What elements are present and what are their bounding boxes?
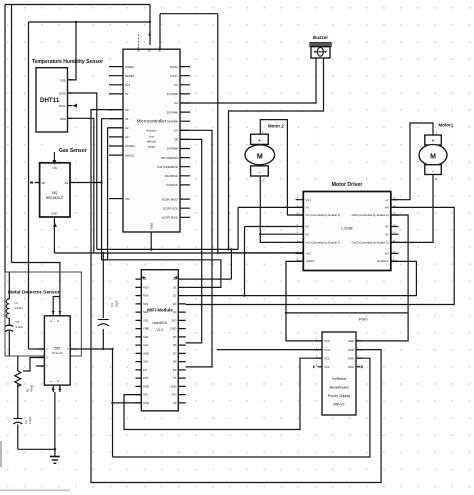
svg-text:47kΩ: 47kΩ xyxy=(30,384,34,392)
wire MCU top pin3 to driver pin7 xyxy=(160,14,303,253)
svg-text:GND: GND xyxy=(143,401,149,405)
wire R1 C2 column xyxy=(17,356,19,449)
wire D4 to buzzer left xyxy=(170,58,316,103)
svg-text:Arduino: Arduino xyxy=(146,129,157,133)
wire driver +V feed xyxy=(238,207,303,249)
wire left rail x5 xyxy=(4,5,6,273)
svg-text:D11 PWM/MOSI: D11 PWM/MOSI xyxy=(158,165,179,169)
svg-text:GND: GND xyxy=(143,351,149,355)
svg-text:D9 PWM: D9 PWM xyxy=(167,147,179,151)
svg-text:VCC: VCC xyxy=(324,339,330,343)
svg-text:YwRobot: YwRobot xyxy=(332,377,347,381)
power supply MB-V2 xyxy=(314,318,368,416)
svg-text:EN: EN xyxy=(143,368,147,372)
wire 555 right pin to x112.5 xyxy=(70,348,112,350)
svg-text:MQ: MQ xyxy=(52,191,58,195)
svg-text:D4: D4 xyxy=(174,101,178,105)
wire MCU A1 to x101.6 xyxy=(102,119,123,260)
svg-text:In1 (Controlled by Enable 1): In1 (Controlled by Enable 1) xyxy=(306,213,341,217)
svg-text:SD3: SD3 xyxy=(143,302,149,306)
svg-text:Out3 (Controlled by Enable 2): Out3 (Controlled by Enable 2) xyxy=(352,241,389,245)
scan artifact marks xyxy=(0,441,2,467)
wire C3 column xyxy=(102,253,104,349)
svg-text:Gas Sensor: Gas Sensor xyxy=(59,148,87,154)
svg-text:SD1: SD1 xyxy=(143,318,149,322)
svg-text:D3: D3 xyxy=(173,302,177,306)
svg-text:GND: GND xyxy=(51,212,57,216)
svg-text:+V: +V xyxy=(306,206,310,210)
svg-text:D10 PWM/SS: D10 PWM/SS xyxy=(161,156,178,160)
sensor DHT11 xyxy=(32,59,103,132)
left pins xyxy=(109,67,123,199)
svg-text:Power Supply: Power Supply xyxy=(328,394,350,398)
svg-text:+Motor: +Motor xyxy=(306,259,315,263)
svg-text:Microcontroller: Microcontroller xyxy=(137,119,167,124)
ground xyxy=(50,449,60,463)
svg-text:MB-V2: MB-V2 xyxy=(334,403,345,407)
svg-text:(Rev3): (Rev3) xyxy=(147,140,156,144)
wire motor2 plus to driver In1 xyxy=(260,120,303,215)
svg-text:SD2: SD2 xyxy=(143,310,149,314)
svg-text:Motor 2: Motor 2 xyxy=(268,124,284,129)
svg-text:GND: GND xyxy=(143,384,149,388)
svg-text:3V3: 3V3 xyxy=(143,360,148,364)
svg-text:D2: D2 xyxy=(173,294,177,298)
wire 5V rail y22 xyxy=(29,21,151,23)
svg-text:SD0: SD0 xyxy=(143,335,149,339)
wire driver pin8L +Motor to PSU VCC1 xyxy=(286,261,322,341)
svg-text:VDD: VDD xyxy=(60,78,66,82)
motor M2 xyxy=(245,124,284,183)
svg-text:WiFi Module: WiFi Module xyxy=(147,308,173,313)
svg-text:10mH: 10mH xyxy=(15,306,23,310)
svg-text:NULL: NULL xyxy=(59,104,67,108)
wire 555 left pin1 xyxy=(29,348,45,350)
svg-text:Timer IC: Timer IC xyxy=(52,351,63,355)
wire wifi row15 to PSU VCC3 xyxy=(124,358,322,429)
svg-text:In4: In4 xyxy=(385,206,389,210)
svg-text:A2: A2 xyxy=(125,126,129,130)
wire MCU A0 to x91 xyxy=(91,110,381,483)
svg-text:NodeMCU: NodeMCU xyxy=(152,321,168,325)
svg-text:RX: RX xyxy=(173,368,177,372)
wire x244.5 xyxy=(244,227,246,296)
svg-text:RST: RST xyxy=(143,376,149,380)
svg-text:-: - xyxy=(432,169,434,175)
wire driver pin3R to PSU GND1 xyxy=(356,215,408,341)
svg-text:VCC: VCC xyxy=(324,348,330,352)
svg-text:TX: TX xyxy=(173,376,177,380)
svg-text:GND: GND xyxy=(348,357,354,361)
wire x112.5 xyxy=(112,349,114,457)
svg-text:3V3: 3V3 xyxy=(172,393,177,397)
wire wifi row16 left xyxy=(113,402,142,404)
wire DHT GND down xyxy=(68,118,94,253)
svg-text:GND: GND xyxy=(171,327,177,331)
wire gas A0 xyxy=(70,182,102,184)
svg-text:Buzzer: Buzzer xyxy=(313,35,329,40)
motor driver L293B xyxy=(296,182,399,271)
svg-text:D5 PWM: D5 PWM xyxy=(167,110,179,114)
svg-text:0V: 0V xyxy=(385,225,389,229)
svg-text:(ICSP) MOSI: (ICSP) MOSI xyxy=(162,216,179,220)
svg-text:In3: In3 xyxy=(385,252,389,256)
svg-text:VIN: VIN xyxy=(143,393,148,397)
svg-text:3V3: 3V3 xyxy=(125,83,130,87)
svg-text:Enable 1: Enable 1 xyxy=(378,259,389,263)
svg-text:D2: D2 xyxy=(174,83,178,87)
wire D8 down to wifi row9 xyxy=(170,139,202,343)
metal detector container xyxy=(5,272,81,356)
svg-text:In2 (Controlled by Enable 1): In2 (Controlled by Enable 1) xyxy=(306,241,341,245)
svg-text:5V: 5V xyxy=(173,401,176,405)
svg-text:C3: C3 xyxy=(110,303,114,307)
wire DHT VDD to 5V rail xyxy=(68,22,77,80)
svg-text:Breadboard: Breadboard xyxy=(330,386,349,390)
wire 555 left pin2 xyxy=(23,358,44,372)
svg-text:VCC: VCC xyxy=(324,357,330,361)
wire mcu top pin feed xyxy=(149,5,151,46)
svg-text:IOREF: IOREF xyxy=(125,65,134,69)
microcontroller U1 Arduino Uno xyxy=(109,32,190,232)
svg-text:D8: D8 xyxy=(173,360,177,364)
svg-text:A0: A0 xyxy=(65,181,69,185)
wire 555 bottom pin down xyxy=(54,392,56,449)
svg-text:A3: A3 xyxy=(125,135,129,139)
svg-text:Motor1: Motor1 xyxy=(439,123,454,128)
svg-text:D1: D1 xyxy=(173,285,177,289)
wire mcu bottom pin xyxy=(150,232,152,249)
right pins xyxy=(180,67,190,218)
svg-text:D0: D0 xyxy=(42,181,46,185)
svg-text:L293B: L293B xyxy=(341,226,353,231)
svg-text:A5/SCL: A5/SCL xyxy=(125,153,135,157)
svg-text:A0: A0 xyxy=(125,108,129,112)
svg-text:5V: 5V xyxy=(148,48,152,52)
svg-text:A0: A0 xyxy=(143,277,147,281)
svg-text:+: + xyxy=(432,139,435,145)
wire PSU VCC2 rail xyxy=(217,349,322,351)
svg-text:GND: GND xyxy=(60,117,66,121)
svg-text:D7: D7 xyxy=(173,351,177,355)
svg-text:3V3: 3V3 xyxy=(137,47,141,52)
svg-text:D1/Tx: D1/Tx xyxy=(171,74,179,78)
wire driver pin1R to motor1 plus xyxy=(391,123,433,200)
wire motor2 minus to driver In2 xyxy=(260,176,303,242)
wire 555 top pin1 feed xyxy=(53,297,60,308)
buzzer xyxy=(310,35,331,58)
svg-text:D7: D7 xyxy=(174,129,178,133)
svg-text:D0: D0 xyxy=(173,277,177,281)
svg-text:BREAKOUT: BREAKOUT xyxy=(46,196,64,200)
wire DHT DATA down xyxy=(68,93,97,249)
svg-text:0V: 0V xyxy=(306,232,310,236)
top pins xyxy=(138,34,140,49)
svg-text:Uno: Uno xyxy=(149,135,155,139)
svg-text:5V: 5V xyxy=(125,92,129,96)
svg-text:GND: GND xyxy=(348,348,354,352)
svg-text:Temperature Humidity Sensor: Temperature Humidity Sensor xyxy=(32,59,103,65)
wire top rail 1 xyxy=(5,4,150,6)
svg-text:Metal Detector Sensor: Metal Detector Sensor xyxy=(8,290,60,296)
svg-text:D8: D8 xyxy=(174,138,178,142)
svg-text:Motor Driver: Motor Driver xyxy=(332,182,363,188)
svg-text:2.2µF: 2.2µF xyxy=(28,416,32,424)
wire buzzer right down xyxy=(229,58,324,249)
svg-text:2.2µF: 2.2µF xyxy=(16,325,24,329)
svg-text:D12/MISO: D12/MISO xyxy=(165,174,179,178)
svg-text:D6 PWM: D6 PWM xyxy=(167,119,179,123)
svg-text:RESET: RESET xyxy=(125,74,135,78)
svg-text:Vs 1: Vs 1 xyxy=(306,198,312,202)
svg-text:M: M xyxy=(430,154,436,161)
capacitor C1 xyxy=(5,320,23,332)
wire left rail x11.5 xyxy=(11,5,13,263)
svg-text:555: 555 xyxy=(54,347,60,351)
svg-text:RSV: RSV xyxy=(143,294,149,298)
svg-text:VIN: VIN xyxy=(125,197,130,201)
timer IC 555 xyxy=(39,307,76,392)
wire 555 top pin2 feed xyxy=(12,263,60,308)
svg-text:D3 PWM: D3 PWM xyxy=(167,92,179,96)
svg-text:L1: L1 xyxy=(15,301,19,305)
inductor L1 xyxy=(6,299,22,318)
svg-text:GND: GND xyxy=(171,384,177,388)
wire 555 left pin3 xyxy=(36,365,44,367)
svg-text:VCC: VCC xyxy=(324,365,330,369)
svg-text:C1: C1 xyxy=(16,320,20,324)
wire mcu bottom gnd y249.4 xyxy=(97,249,238,279)
svg-text:CLK: CLK xyxy=(143,343,148,347)
svg-text:+V2: +V2 xyxy=(306,252,311,256)
wire L1 C1 column xyxy=(8,272,10,356)
wire y259.8 to wifi row2 xyxy=(102,260,221,288)
svg-text:0V: 0V xyxy=(385,232,389,236)
svg-text:RSV: RSV xyxy=(143,285,149,289)
wire enable2 to wifi row3 xyxy=(186,261,417,295)
svg-text:Out4 (Controlled by Enable 2): Out4 (Controlled by Enable 2) xyxy=(352,213,389,217)
wire D7 down to wifi row12 xyxy=(170,130,212,367)
svg-text:0V: 0V xyxy=(306,225,310,229)
svg-text:DATA: DATA xyxy=(59,92,66,96)
resistor R1 xyxy=(15,371,34,392)
svg-text:GND: GND xyxy=(348,365,354,369)
wire driver pin5L xyxy=(260,233,295,235)
wire motor1 minus to driver pin6R xyxy=(391,174,433,242)
wire driver pin4L xyxy=(245,226,296,228)
wire gas GND rail y253 xyxy=(54,223,303,253)
svg-text:D6: D6 xyxy=(173,343,177,347)
svg-text:10µF: 10µF xyxy=(115,300,119,307)
svg-text:D5: D5 xyxy=(173,335,177,339)
svg-text:V1.0: V1.0 xyxy=(157,328,164,332)
sensor MQ gas breakout xyxy=(30,148,87,227)
capacitor C2 xyxy=(13,416,32,424)
wire left rail x28.5 xyxy=(28,22,30,349)
svg-text:(ICSP) SCK: (ICSP) SCK xyxy=(163,206,178,210)
svg-text:(ICSP) MISO: (ICSP) MISO xyxy=(162,197,179,201)
svg-text:Pwr0: Pwr0 xyxy=(359,318,368,322)
svg-text:+: + xyxy=(258,138,261,144)
svg-text:A4/SDA: A4/SDA xyxy=(125,144,135,148)
svg-text:A1: A1 xyxy=(125,117,129,121)
svg-text:GND: GND xyxy=(348,339,354,343)
wire PSU GND3 to y457 xyxy=(113,358,370,457)
svg-text:+V: +V xyxy=(385,198,389,202)
wire gnd run y449.3 xyxy=(18,448,55,450)
motor M1 xyxy=(419,123,454,182)
WiFi module NodeMCU xyxy=(136,270,186,411)
wire MCU A2 xyxy=(102,128,123,260)
svg-text:D0/Rx: D0/Rx xyxy=(170,65,178,69)
svg-text:D13/SCK: D13/SCK xyxy=(166,183,178,187)
svg-text:VIN: VIN xyxy=(52,166,57,170)
svg-text:-: - xyxy=(259,171,261,177)
svg-text:GND: GND xyxy=(149,223,153,229)
svg-text:3V3: 3V3 xyxy=(172,318,177,322)
svg-text:DHT11: DHT11 xyxy=(40,97,60,104)
capacitor C3 xyxy=(98,300,119,326)
svg-text:D4: D4 xyxy=(173,310,177,314)
wire driver out to wifi row4 xyxy=(186,207,455,304)
wire gnd1 branch y312.9 xyxy=(286,312,408,314)
svg-text:CMD: CMD xyxy=(143,327,149,331)
svg-text:VIN: VIN xyxy=(157,47,161,52)
svg-text:M: M xyxy=(257,153,263,160)
svg-text:ICSP: ICSP xyxy=(148,145,155,149)
